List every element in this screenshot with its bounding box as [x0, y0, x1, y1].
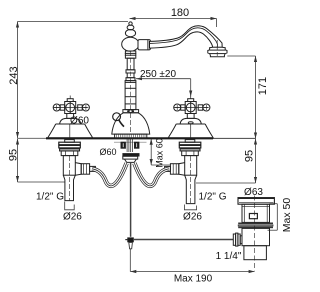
svg-text:171: 171: [257, 77, 269, 95]
svg-text:Ø63: Ø63: [244, 187, 263, 198]
svg-text:1/2" G: 1/2" G: [36, 192, 64, 203]
svg-text:Max 190: Max 190: [174, 274, 213, 285]
svg-text:95: 95: [244, 150, 256, 162]
svg-text:Ø26: Ø26: [183, 212, 202, 223]
svg-text:95: 95: [7, 149, 19, 161]
svg-text:243: 243: [8, 66, 20, 84]
svg-text:1/2" G: 1/2" G: [198, 192, 226, 203]
svg-text:Max 60: Max 60: [155, 138, 165, 168]
svg-text:180: 180: [171, 7, 189, 19]
svg-text:Max 50: Max 50: [281, 198, 293, 233]
svg-text:Ø60: Ø60: [99, 147, 116, 157]
svg-text:1 1/4": 1 1/4": [216, 251, 242, 262]
svg-text:250 ±20: 250 ±20: [140, 69, 177, 80]
svg-text:Ø26: Ø26: [63, 212, 82, 223]
